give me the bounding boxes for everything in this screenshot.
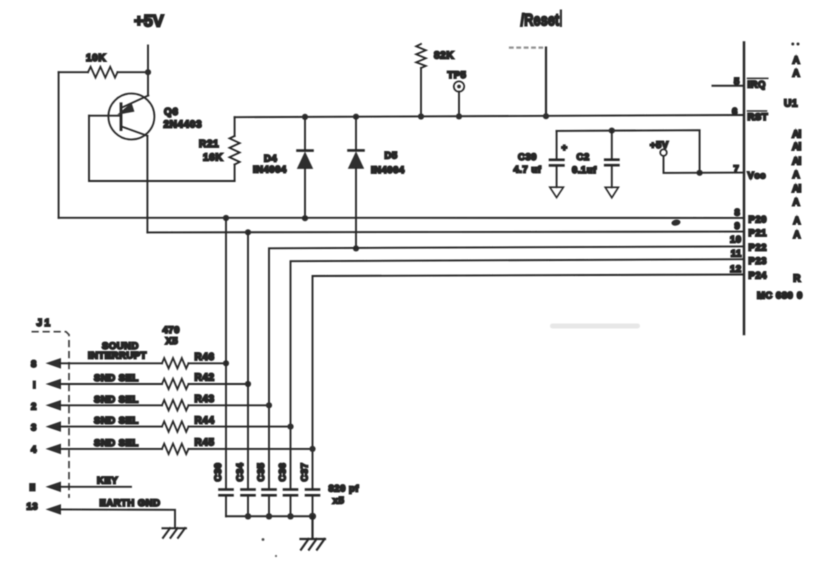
transistor Q6 collector	[122, 127, 148, 136]
pin arrow 13	[46, 504, 62, 515]
svg-text:KEY: KEY	[97, 475, 118, 486]
resistor R21	[230, 136, 240, 165]
wire D5 cathode to RST	[355, 117, 357, 150]
pin name P24	[749, 270, 768, 281]
wire pin4 to R45	[60, 448, 162, 450]
svg-text:A: A	[793, 216, 801, 227]
wire R46 to bus1	[189, 362, 227, 364]
capacitor C35 plates	[263, 490, 276, 496]
svg-text:/Reset: /Reset	[521, 11, 560, 30]
pin name Vcc	[748, 170, 766, 181]
svg-text:470: 470	[163, 325, 180, 336]
value 4.7 uf	[514, 165, 542, 176]
svg-text:II: II	[30, 482, 36, 493]
pin number 3 (J1)	[31, 423, 37, 434]
speck noise 1	[262, 538, 265, 541]
capacitor C35 label (rotated)	[256, 462, 267, 481]
capacitor C30 plates	[220, 490, 233, 496]
test point TP5	[454, 81, 464, 91]
svg-text:TP5: TP5	[448, 70, 467, 81]
pin number 4 (J1)	[31, 445, 37, 456]
pin number 8	[735, 207, 741, 218]
wire pin3 to R44	[60, 426, 162, 428]
label SND SEL (row 3)	[94, 416, 139, 427]
svg-text:C2: C2	[577, 152, 590, 163]
label R45	[195, 438, 215, 449]
wire pin1 to R42	[60, 383, 162, 385]
capacitor C34 label (rotated)	[235, 462, 246, 481]
svg-text:P24: P24	[749, 270, 768, 281]
resistor 82K	[416, 44, 426, 68]
wire 82K to RST	[420, 68, 422, 117]
svg-text:C36: C36	[277, 463, 288, 482]
label X5 (resistors)	[166, 336, 179, 347]
ink blob on P20 line	[671, 219, 681, 227]
wire bypass-cap top rail	[557, 130, 700, 173]
pin number 8 (J1)	[31, 359, 37, 370]
svg-text:10K: 10K	[86, 53, 106, 64]
wire R42 to bus2	[189, 383, 249, 385]
junction dot R45/bus5	[309, 446, 315, 452]
svg-text:SND SEL: SND SEL	[94, 373, 139, 384]
label X5 (capacitors)	[333, 496, 345, 507]
wire C39 top lead	[556, 131, 558, 159]
wire R21 top to RST line	[234, 117, 236, 136]
wire bus2 vertical (P21 to C34)	[247, 232, 249, 488]
label TP5	[448, 70, 467, 81]
svg-text:C39: C39	[518, 152, 537, 163]
capacitor C2 plates	[605, 160, 618, 166]
node /Reset label	[521, 11, 560, 30]
resistor R45	[162, 444, 189, 454]
pin arrow 2	[46, 400, 62, 411]
wire C37 bottom lead	[312, 496, 314, 516]
pin arrow 3	[46, 421, 62, 432]
connector J1 label	[37, 318, 53, 329]
junction dot C37/bottom	[309, 513, 316, 520]
junction dot C36/bottom	[287, 513, 293, 519]
value 1N4004 (D4)	[253, 165, 287, 176]
wire bottom to earth ground	[311, 516, 313, 538]
junction dot /Reset/RST	[543, 113, 549, 119]
svg-text:SND SEL: SND SEL	[94, 416, 139, 427]
wire left vertical from 10K down to P20 line	[58, 72, 60, 218]
svg-text:A: A	[793, 68, 801, 79]
capacitor C37 label (rotated)	[299, 463, 310, 482]
junction dot R43/bus3	[266, 402, 272, 408]
wire KEY stub	[60, 486, 131, 488]
svg-text:P20: P20	[749, 215, 767, 226]
wire collector down to P21 line	[146, 136, 148, 233]
value 0.1uf	[572, 165, 597, 176]
connector J1 dashed outline	[32, 332, 69, 497]
svg-text:P23: P23	[749, 256, 767, 267]
label D4	[264, 154, 277, 165]
wire TP5 to RST	[458, 92, 460, 117]
resistor R43	[162, 400, 189, 410]
label R42	[195, 373, 215, 384]
label R43	[195, 394, 215, 405]
wire D5 anode to P22	[355, 168, 357, 248]
wire base loop left/down	[89, 116, 235, 181]
wire R45 to bus5	[189, 448, 313, 450]
ground (earth, J1)	[163, 528, 187, 538]
svg-text:Al: Al	[792, 157, 802, 168]
faint smudge	[550, 324, 640, 329]
junction dot rail/Vcc branch	[697, 170, 703, 176]
svg-text:Al: Al	[792, 129, 802, 140]
wire pin2 to R43	[60, 404, 162, 406]
label 470	[163, 325, 180, 336]
svg-text:P22: P22	[749, 242, 767, 253]
svg-text:A: A	[793, 198, 801, 209]
svg-text:R: R	[793, 274, 801, 285]
svg-text:R21: R21	[199, 139, 219, 150]
svg-text:R42: R42	[195, 373, 215, 384]
wire R21 bottom to base loop	[234, 165, 236, 182]
wire +5V down to emitter	[147, 46, 149, 96]
resistor R44	[162, 421, 189, 431]
wire base of Q6	[89, 115, 120, 117]
svg-text:+5V: +5V	[134, 13, 164, 31]
capacitor C39 plates	[550, 160, 563, 166]
junction dot P21/bus2	[245, 229, 251, 235]
capacitor C30 label (rotated)	[213, 463, 224, 482]
svg-text:x5: x5	[333, 496, 345, 507]
capacitor C37 plates	[306, 490, 319, 496]
pin name P23	[749, 256, 767, 267]
capacitor C36 label (rotated)	[277, 463, 288, 482]
label R21	[199, 139, 219, 150]
junction dot D5/RST	[353, 114, 359, 120]
value 2N4403	[164, 120, 203, 131]
wire C2 to ground	[611, 166, 613, 187]
svg-text:A: A	[793, 170, 801, 181]
node +5V (Vcc) label	[650, 140, 669, 151]
svg-text:Al: Al	[792, 184, 802, 195]
svg-text:2: 2	[31, 401, 37, 412]
node +5V label (top)	[134, 13, 164, 31]
wire 10K to +5V rail	[118, 71, 149, 73]
svg-text:4: 4	[31, 445, 37, 456]
junction dot R44/bus4	[287, 424, 293, 430]
wire P20 net to pin 8	[59, 217, 744, 219]
svg-text:11: 11	[731, 248, 742, 259]
pin name IRQ with overbar	[748, 78, 768, 90]
wire D4 anode to P20	[304, 168, 306, 218]
value 16K	[203, 153, 223, 164]
svg-text:R43: R43	[195, 394, 215, 405]
junction dot R42/bus2	[245, 381, 251, 387]
svg-text:D4: D4	[264, 154, 277, 165]
svg-text:0: 0	[797, 290, 803, 301]
svg-text:Al: Al	[792, 142, 802, 153]
wire EARTH GND to ground	[60, 509, 175, 527]
svg-text:820 pf: 820 pf	[329, 484, 360, 495]
label Q6	[164, 107, 179, 118]
diode D4	[298, 151, 313, 169]
pin number 7	[734, 164, 740, 175]
wire P21 net to pin 9	[147, 231, 744, 234]
wire C2 top lead	[611, 131, 613, 159]
wire C35 bottom lead	[268, 496, 270, 516]
pin name RST with overbar	[748, 111, 769, 123]
pin number 6	[732, 106, 738, 117]
label U1	[784, 99, 798, 110]
wire P24 net corner to pin 12	[313, 275, 745, 489]
svg-text:C34: C34	[235, 462, 246, 481]
dotted stub left of /Reset wire	[510, 46, 542, 48]
svg-text:3: 3	[31, 423, 37, 434]
label INTERRUPT	[88, 351, 147, 362]
pin number 11	[731, 248, 742, 259]
resistor 10K value label	[86, 53, 106, 64]
ground (C2, open triangle)	[605, 187, 618, 197]
svg-text:SND SEL: SND SEL	[94, 394, 139, 405]
svg-text:8: 8	[735, 207, 741, 218]
transistor Q2 body circle	[108, 94, 154, 140]
svg-text:16K: 16K	[203, 153, 223, 164]
pin arrow 4	[46, 444, 62, 455]
terminal circle +5V	[660, 149, 667, 156]
svg-text:RST: RST	[748, 112, 769, 123]
value 820 pf	[329, 484, 360, 495]
svg-text:8: 8	[31, 359, 37, 370]
wire capacitor common bottom	[226, 515, 313, 517]
svg-text:12: 12	[730, 264, 742, 275]
value 1N4004 (D5)	[371, 165, 405, 176]
label SOUND	[102, 341, 139, 352]
wire C30 bottom lead	[225, 496, 227, 516]
transistor Q6 base bar	[120, 104, 123, 130]
svg-text:SND SEL: SND SEL	[94, 438, 139, 449]
diode D5	[349, 150, 364, 168]
svg-text:INTERRUPT: INTERRUPT	[88, 351, 147, 362]
svg-text:C37: C37	[299, 463, 310, 482]
wire R43 to bus3	[189, 404, 270, 406]
polarity + of C39	[562, 143, 568, 154]
label KEY	[97, 475, 118, 486]
wire C39 to ground	[556, 167, 558, 188]
wire P22 net corner to pin 10	[269, 246, 744, 488]
svg-text:X5: X5	[166, 336, 179, 347]
text caret after /Reset	[560, 10, 562, 28]
label C39	[518, 152, 537, 163]
wire left end to 10K	[59, 71, 88, 73]
svg-text:MC 680: MC 680	[757, 290, 793, 301]
resistor R42	[162, 379, 189, 389]
svg-text:P21: P21	[749, 228, 768, 239]
label SND SEL (row 4)	[94, 438, 139, 449]
svg-text:+: +	[562, 143, 568, 154]
svg-text:R45: R45	[195, 438, 215, 449]
svg-text:Vcc: Vcc	[748, 170, 766, 181]
label 82K	[434, 51, 454, 62]
junction dot 82K/RST	[418, 113, 424, 119]
svg-text:D5: D5	[385, 151, 398, 162]
svg-text:IRQ: IRQ	[748, 80, 766, 91]
wire R44 to bus4	[189, 426, 291, 428]
label R44	[195, 415, 215, 426]
pin labels A (cut at right edge)	[791, 43, 801, 285]
svg-text:IN4004: IN4004	[371, 165, 405, 176]
svg-text:I: I	[33, 380, 36, 391]
svg-text:A: A	[793, 230, 801, 241]
capacitor C34 plates	[242, 490, 255, 496]
label SND SEL (row 2)	[94, 394, 139, 405]
junction dot D4/RST	[302, 114, 308, 120]
label SND SEL (row 1)	[94, 373, 139, 384]
wire bus1 vertical (P20 to C30)	[225, 218, 227, 488]
part number MC 6800	[757, 290, 803, 301]
pin number 12	[730, 264, 742, 275]
pin number 10	[730, 235, 742, 246]
pin name P20	[749, 215, 767, 226]
wire RST net horizontal to pin 6	[235, 115, 744, 117]
pin 5 stub IRQ	[713, 85, 745, 87]
junction dot C34/bottom	[245, 513, 251, 519]
svg-text:A: A	[793, 56, 801, 67]
svg-text:U1: U1	[784, 99, 798, 110]
pin number 11 (J1)	[30, 482, 36, 493]
svg-text:IN4004: IN4004	[253, 165, 287, 176]
pin number 2 (J1)	[31, 401, 37, 412]
junction dot 10K/+5V	[145, 69, 151, 75]
label D5	[385, 151, 398, 162]
wire C34 bottom lead	[247, 496, 249, 516]
pin number 5	[734, 77, 740, 88]
svg-text:10: 10	[730, 235, 742, 246]
pin number 13 (J1)	[27, 501, 39, 512]
junction dot R46/bus1	[223, 360, 229, 366]
svg-text:4.7 uf: 4.7 uf	[514, 165, 542, 176]
ground (C39, open triangle)	[550, 187, 564, 197]
capacitor C36 plates	[284, 490, 297, 496]
svg-text:Q6: Q6	[164, 107, 179, 118]
pin arrow 8	[46, 358, 62, 369]
junction dot D4/P20	[302, 215, 308, 221]
label R46	[195, 352, 215, 363]
svg-text:13: 13	[27, 501, 39, 512]
wire P23 net corner to pin 11	[291, 259, 745, 488]
pin name P21	[749, 228, 768, 239]
pin arrow 1	[46, 379, 62, 390]
pin number 9	[735, 221, 741, 232]
svg-text:EARTH GND: EARTH GND	[100, 498, 161, 509]
speck noise 2	[275, 555, 277, 557]
junction dot TP5/RST	[456, 113, 462, 119]
svg-text:7: 7	[734, 164, 740, 175]
IC U1 left edge	[743, 43, 746, 335]
wire D4 cathode to RST	[304, 117, 306, 150]
ground (earth, capacitor bank)	[301, 539, 326, 550]
pin name P22	[749, 242, 767, 253]
svg-text:R46: R46	[195, 352, 215, 363]
svg-text:5: 5	[734, 77, 740, 88]
svg-text:C30: C30	[213, 463, 224, 482]
label EARTH GND	[100, 498, 161, 509]
junction dot C35/bottom	[266, 513, 272, 519]
svg-text:R44: R44	[195, 415, 215, 426]
svg-text:J1: J1	[37, 318, 53, 329]
pin arrow 11	[46, 482, 62, 493]
svg-text:6: 6	[732, 106, 738, 117]
resistor R46	[162, 358, 189, 368]
svg-text:9: 9	[735, 221, 741, 232]
wire +5V to Vcc pin line	[664, 156, 745, 173]
transistor Q6 emitter with PNP arrow	[119, 95, 149, 114]
svg-text:0.1uf: 0.1uf	[572, 165, 597, 176]
junction dot C2/rail	[609, 128, 615, 134]
svg-text:C35: C35	[256, 462, 267, 481]
wire C36 bottom lead	[290, 496, 292, 516]
junction dot P20/bus1	[223, 215, 229, 221]
wire pin8 to R46	[60, 362, 162, 364]
pin number 1 (J1)	[33, 380, 36, 391]
label C2	[577, 152, 590, 163]
wire /Reset vertical to RST	[545, 48, 547, 117]
svg-text:2N4403: 2N4403	[164, 120, 203, 131]
junction dot D5/P22	[353, 245, 359, 251]
svg-text:82K: 82K	[434, 51, 454, 62]
resistor 10K	[88, 67, 118, 78]
